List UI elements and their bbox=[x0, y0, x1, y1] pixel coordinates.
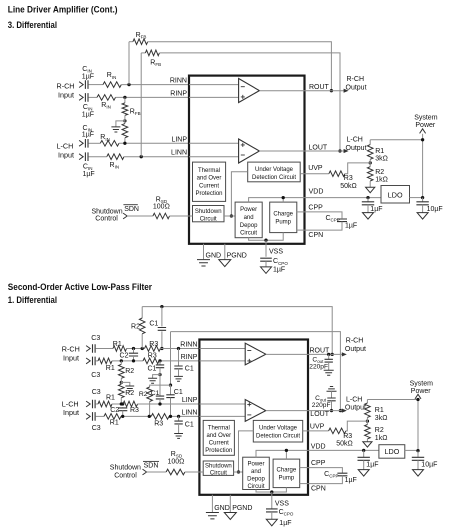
resistor RSD 100 (top) bbox=[153, 213, 170, 219]
pin label PGND (bottom) bbox=[232, 505, 252, 512]
svg-text:Output: Output bbox=[345, 346, 366, 353]
wire LOUT output (bottom) bbox=[308, 410, 345, 412]
pin label CPN (top) bbox=[308, 232, 323, 239]
capacitor C3 3 (bottom) bbox=[93, 400, 96, 409]
wire R2 jog (bottom) bbox=[150, 385, 171, 387]
wire rinp to IC (bottom) bbox=[159, 360, 199, 362]
wire LDO to system power (bottom) bbox=[405, 449, 418, 451]
node R1/R2/R3 junction (top) bbox=[369, 159, 372, 166]
wire RINP inside (bottom) bbox=[199, 360, 245, 362]
wire rail2 to LOUT (top) bbox=[159, 53, 340, 151]
svg-text:VDD: VDD bbox=[311, 444, 326, 451]
wire 10uF to gnd (top) bbox=[422, 205, 424, 213]
ground VDD cap (bottom, arrow) bbox=[358, 470, 369, 477]
label R1 (bottom LINN) bbox=[110, 419, 119, 426]
wire CCPP to CPN (top) bbox=[305, 222, 343, 231]
op-amp U2A (bottom R-CH) bbox=[245, 343, 266, 365]
node RINP/C1 junction (bottom) bbox=[158, 359, 161, 362]
node ROUT/Cout junction (bottom) bbox=[327, 353, 330, 356]
label R2 lower (bottom) bbox=[125, 390, 134, 397]
label Shutdown Control (top) bbox=[92, 208, 123, 222]
wire C1 gnd drop LINN (bottom) bbox=[178, 416, 180, 421]
wire VDD internal (bottom) bbox=[256, 449, 308, 459]
svg-text:3kΩ: 3kΩ bbox=[375, 415, 388, 422]
label R2 upper (bottom) bbox=[125, 368, 134, 375]
node system power/rail junction (bottom) bbox=[416, 398, 419, 401]
capacitor C1 (LINN to rail2) bbox=[166, 395, 174, 398]
svg-text:Power: Power bbox=[240, 207, 257, 213]
svg-text:1kΩ: 1kΩ bbox=[375, 435, 388, 442]
svg-text:RINN: RINN bbox=[180, 342, 197, 349]
wire linn node segment (bottom) bbox=[121, 415, 151, 417]
node LINN/C2 junction (bottom) bbox=[121, 415, 124, 418]
svg-text:Current: Current bbox=[199, 183, 219, 189]
wire LINP inside (top) bbox=[189, 142, 239, 144]
svg-text:R1: R1 bbox=[106, 395, 115, 402]
svg-text:LOUT: LOUT bbox=[310, 411, 329, 418]
wire R2 chain upper lead (bottom) bbox=[120, 361, 122, 364]
block Power and Depop Circuit (top) bbox=[235, 202, 262, 238]
label R2 rail2 (bottom) bbox=[139, 391, 148, 398]
wire linp input (bottom) bbox=[95, 403, 98, 405]
label System Power (top) bbox=[414, 114, 438, 128]
svg-text:L-CH: L-CH bbox=[346, 397, 362, 404]
node RINP/RFB junction (top) bbox=[123, 96, 126, 99]
resistor R1 (bottom RINP) bbox=[98, 358, 112, 364]
capacitor C3 1 (bottom) bbox=[93, 344, 96, 353]
label RFB upper bbox=[130, 108, 141, 116]
resistor RFB (RINP to gnd) bbox=[122, 103, 128, 116]
label L-CH Output (bottom) bbox=[345, 397, 366, 412]
wire LOUT inside (bottom) bbox=[266, 410, 308, 412]
label RIN (top RINP) bbox=[101, 102, 111, 110]
wire rinn to IC (bottom) bbox=[160, 348, 199, 350]
resistor RIN (top RINP) bbox=[97, 95, 116, 101]
svg-text:LINP: LINP bbox=[182, 397, 198, 404]
node RINN/rail1 junction (top) bbox=[127, 83, 130, 86]
node RINN/R2 junction (bottom) bbox=[141, 347, 144, 350]
wire VSS stem (top) bbox=[265, 240, 267, 257]
node LOUT/Cout junction (bottom) bbox=[330, 409, 333, 412]
wire SDN to RSD (bottom) bbox=[147, 471, 167, 473]
svg-text:ROUT: ROUT bbox=[310, 347, 331, 354]
label C1 LINN gnd (bottom) bbox=[185, 421, 194, 428]
terminal System Power arrow (top) bbox=[420, 129, 426, 134]
capacitor CCPO (bottom) bbox=[266, 509, 278, 512]
ground R2 midpoint (bottom) bbox=[125, 386, 134, 391]
input terminal L-CH - (bottom) bbox=[86, 414, 90, 420]
node RINN/C1gnd junction (bottom) bbox=[177, 347, 180, 350]
capacitor C1 (LINN to gnd) bbox=[174, 421, 182, 424]
block Shutdown Circuit (top) bbox=[193, 206, 225, 223]
capacitor C3 2 (bottom) bbox=[93, 357, 96, 366]
ground C1 midpoint (bottom) bbox=[148, 378, 157, 383]
svg-text:R3: R3 bbox=[154, 420, 163, 427]
pin label LOUT (bottom) bbox=[310, 411, 329, 418]
pin label LINN (top) bbox=[171, 150, 187, 157]
svg-text:ROUT: ROUT bbox=[309, 84, 330, 91]
wire R3 to junction (top) bbox=[345, 163, 370, 174]
pin PGND (top) bbox=[224, 244, 226, 260]
op-amp U1A (top R-CH) bbox=[239, 79, 260, 103]
resistor RFB (gnd to LINP) bbox=[122, 124, 128, 138]
pin label LINP (top) bbox=[171, 136, 187, 143]
label CIN 1uF (top 2) bbox=[82, 104, 94, 119]
wire VSS bracket (top) bbox=[249, 233, 284, 242]
node RINN/C1 junction (bottom) bbox=[160, 347, 163, 350]
label RIN (top LINP) bbox=[100, 134, 110, 142]
svg-text:Control: Control bbox=[114, 472, 137, 479]
svg-text:C3: C3 bbox=[91, 335, 100, 342]
svg-text:R-CH: R-CH bbox=[346, 338, 364, 345]
svg-text:and Over: and Over bbox=[206, 433, 231, 439]
node LINN/C1 junction (bottom) bbox=[169, 415, 172, 418]
wire RINN inside (top) bbox=[189, 84, 239, 86]
ground GND (top) bbox=[197, 260, 210, 266]
svg-text:C3: C3 bbox=[92, 389, 101, 396]
svg-text:1µF: 1µF bbox=[345, 477, 357, 484]
svg-text:Charge: Charge bbox=[273, 212, 293, 218]
ground VSS (top, arrow) bbox=[261, 267, 272, 274]
label R3 (bottom LINP) bbox=[130, 407, 139, 414]
wire R-CH inp input (top) bbox=[88, 96, 97, 98]
svg-text:R-CH: R-CH bbox=[347, 76, 365, 83]
svg-text:LINN: LINN bbox=[181, 409, 197, 416]
svg-text:Power: Power bbox=[415, 122, 436, 129]
node RINP/R2 junction (bottom) bbox=[120, 359, 123, 362]
wire RSD to IC (top) bbox=[170, 215, 193, 217]
svg-text:Input: Input bbox=[63, 408, 79, 417]
svg-text:and: and bbox=[244, 215, 254, 221]
svg-text:and Over: and Over bbox=[197, 176, 222, 182]
label CCPP 1uF (bottom) bbox=[345, 477, 357, 484]
svg-text:System: System bbox=[410, 380, 434, 387]
label CIN 1uF (top 4) bbox=[83, 164, 95, 178]
node R-CH Input label (bottom) bbox=[62, 344, 80, 362]
label CCPP (bottom) bbox=[324, 471, 338, 479]
label C2 (L-CH, bottom) bbox=[110, 407, 119, 414]
pin label VDD (bottom) bbox=[311, 444, 326, 451]
ground GND (bottom) bbox=[206, 513, 219, 519]
wire C1 gnd stem LINN (bottom) bbox=[178, 424, 180, 434]
label C1 rail1 (bottom) bbox=[149, 320, 158, 327]
pin label LOUT (top) bbox=[309, 144, 328, 151]
svg-text:100Ω: 100Ω bbox=[168, 459, 185, 466]
svg-text:R2: R2 bbox=[125, 368, 134, 375]
svg-text:1µF: 1µF bbox=[370, 206, 382, 213]
svg-text:1µF: 1µF bbox=[83, 171, 95, 178]
node system power/rail junction (top) bbox=[421, 138, 424, 141]
wire R2 to vss arrow (bottom) bbox=[366, 439, 368, 442]
wire rail1 left drop (top) bbox=[128, 42, 130, 85]
wire CPP to CCPP (bottom) bbox=[308, 468, 342, 474]
wire C1 rail drop (bottom) bbox=[161, 307, 163, 349]
IC body (bottom MAX9722) bbox=[199, 340, 308, 495]
block Thermal and Over Current Protection (bottom) bbox=[203, 420, 234, 455]
input terminal shutdown (bottom) bbox=[143, 469, 147, 475]
wire C1 chain upper lead (bottom) bbox=[159, 361, 161, 365]
IC body (top MAX9722) bbox=[189, 76, 305, 244]
svg-text:Pump: Pump bbox=[279, 475, 295, 481]
wire VDD cap to gnd (bottom) bbox=[363, 460, 365, 469]
label C3 (bottom 4) bbox=[92, 425, 101, 432]
resistor R1 3k (top) bbox=[367, 145, 373, 160]
resistor R3 (bottom LINP) bbox=[123, 401, 138, 407]
label SDN with overline (top) bbox=[123, 205, 139, 213]
resistor R2 (rail1, bottom) bbox=[139, 318, 145, 334]
label C2 (R-CH, bottom) bbox=[120, 352, 129, 359]
svg-text:Second-Order Active Low-Pass F: Second-Order Active Low-Pass Filter bbox=[8, 281, 152, 292]
label C1 RINN gnd (bottom) bbox=[185, 365, 194, 372]
svg-text:R3: R3 bbox=[148, 353, 157, 360]
label Cout (bottom R) bbox=[312, 356, 324, 364]
svg-text:1µF: 1µF bbox=[279, 520, 291, 527]
svg-text:CPP: CPP bbox=[308, 204, 323, 211]
node R-CH Input label (top) bbox=[57, 81, 75, 99]
svg-text:1µF: 1µF bbox=[82, 111, 94, 118]
svg-text:Under Voltage: Under Voltage bbox=[259, 426, 298, 432]
wire rail2 left segment (top) bbox=[141, 52, 145, 54]
wire Cout lead (bottom R) bbox=[328, 354, 330, 359]
node rail2/LOUT junction (top) bbox=[338, 149, 341, 152]
node VDD/C junction (top) bbox=[366, 196, 369, 199]
label CCPP 1uF (top) bbox=[345, 222, 357, 229]
label R2 rail1 (bottom) bbox=[131, 324, 140, 331]
svg-text:R3: R3 bbox=[149, 341, 158, 348]
block Charge Pump (top) bbox=[270, 202, 297, 233]
node LINP/RFB junction (top) bbox=[123, 142, 126, 145]
block Power and Depop Circuit (bottom) bbox=[243, 457, 270, 490]
input terminal R-CH + (top) bbox=[79, 82, 83, 88]
pin PGND (bottom) bbox=[229, 495, 231, 513]
wire 10uF lead (top) bbox=[422, 198, 424, 203]
label C1 rail2 (bottom) bbox=[174, 389, 183, 396]
svg-text:L-CH: L-CH bbox=[57, 142, 74, 151]
wire VDD cap to gnd (top) bbox=[367, 205, 369, 213]
svg-text:R1: R1 bbox=[375, 148, 384, 155]
wire UVD to shutdown net (top) bbox=[230, 172, 248, 218]
svg-text:Power: Power bbox=[411, 388, 432, 395]
input terminal R-CH + (bottom) bbox=[86, 346, 90, 352]
wire C1 ground stub (bottom) bbox=[153, 375, 160, 379]
svg-text:Output: Output bbox=[346, 85, 367, 92]
svg-text:RINN: RINN bbox=[170, 78, 187, 85]
ground C1 LINN (bottom) bbox=[174, 434, 183, 439]
wire VDD to LDO (top) bbox=[305, 197, 382, 199]
resistor R2 (gnd to LINP, bottom) bbox=[119, 384, 125, 398]
capacitor C1 (RINN to gnd) bbox=[174, 366, 182, 369]
svg-text:Detection Circuit: Detection Circuit bbox=[252, 175, 296, 181]
capacitor 10uF (top) bbox=[416, 202, 428, 205]
wire shutdown to power block (bottom) bbox=[234, 471, 243, 473]
wire 10uF to gnd (bottom) bbox=[417, 460, 419, 469]
wire linp node segment (bottom) bbox=[112, 403, 123, 405]
svg-text:C1: C1 bbox=[174, 389, 183, 396]
label R2 1k (top) bbox=[375, 169, 388, 184]
svg-text:Input: Input bbox=[58, 90, 74, 99]
label CIN 1uF (top 3) bbox=[82, 125, 94, 139]
label R-CH Output (bottom) bbox=[345, 338, 366, 353]
svg-text:Output: Output bbox=[345, 405, 366, 412]
wire divider rail (top) bbox=[370, 139, 422, 141]
wire R2 ground stub (bottom) bbox=[121, 382, 130, 386]
resistor RIN (top RINN) bbox=[103, 82, 121, 88]
svg-text:1µF: 1µF bbox=[82, 132, 94, 139]
svg-text:SDN: SDN bbox=[144, 463, 159, 470]
svg-text:1µF: 1µF bbox=[273, 267, 285, 274]
svg-text:1µF: 1µF bbox=[345, 222, 357, 229]
wire L-CH inn input (top) bbox=[88, 156, 106, 158]
pin label CPP (top) bbox=[308, 204, 323, 211]
pin label CPP (bottom) bbox=[311, 460, 326, 467]
svg-text:R1: R1 bbox=[106, 365, 115, 372]
ground VDD cap (top, arrow) bbox=[363, 213, 374, 220]
voltage regulator LDO (bottom) bbox=[379, 445, 405, 459]
svg-text:LINP: LINP bbox=[171, 136, 187, 143]
svg-text:UVP: UVP bbox=[308, 165, 323, 172]
wire R2 rail lead (bottom) bbox=[141, 307, 143, 349]
node LINN/C1gnd junction (bottom) bbox=[177, 415, 180, 418]
node rail2/R2 junction (bottom) bbox=[169, 383, 172, 386]
label R3 50k (bottom) bbox=[336, 433, 353, 448]
svg-text:CPN: CPN bbox=[311, 486, 326, 493]
power ground PGND symbol (top) bbox=[219, 260, 231, 267]
svg-text:R1: R1 bbox=[375, 407, 384, 414]
svg-text:Circuit: Circuit bbox=[240, 231, 257, 237]
label C3 (bottom 2) bbox=[91, 372, 100, 379]
wire rail2 (bottom) bbox=[171, 332, 341, 411]
label R3 (bottom LINN) bbox=[154, 420, 163, 427]
node RINN/C2 junction (bottom) bbox=[132, 347, 135, 350]
resistor R3 (bottom LINN) bbox=[151, 414, 169, 420]
svg-text:R3: R3 bbox=[344, 175, 353, 182]
ground C1 RINN (bottom) bbox=[174, 376, 183, 381]
label RFB rail2 bbox=[150, 59, 161, 67]
wire CCPP to CPN (bottom) bbox=[308, 476, 342, 484]
wire LINP inside (bottom) bbox=[199, 403, 245, 405]
capacitor CCPP (bottom) bbox=[337, 473, 347, 476]
svg-text:R1: R1 bbox=[113, 341, 122, 348]
output arrow L-CH (top) bbox=[344, 149, 349, 153]
label R1 (bottom RINN) bbox=[113, 341, 122, 348]
label 10uF (bottom) bbox=[421, 462, 437, 469]
svg-text:Power: Power bbox=[247, 462, 264, 468]
svg-text:1µF: 1µF bbox=[366, 461, 378, 468]
svg-text:C1: C1 bbox=[185, 421, 194, 428]
wire UVD to shutdown net (bottom) bbox=[237, 431, 253, 474]
svg-text:Depop: Depop bbox=[240, 223, 258, 229]
wire rail1 to ROUT (top) bbox=[148, 42, 332, 91]
pin label RINN (top) bbox=[170, 78, 187, 85]
wire system power vertical (bottom) bbox=[417, 399, 419, 450]
capacitor C1 (gnd to LINP) bbox=[156, 396, 164, 399]
label C3 (bottom 3) bbox=[92, 389, 101, 396]
label RSD (bottom) bbox=[168, 451, 185, 466]
ground RFB midpoint (top) bbox=[111, 127, 120, 132]
svg-text:VDD: VDD bbox=[309, 189, 324, 196]
capacitor CCPP (top) bbox=[337, 219, 347, 222]
svg-text:Shutdown: Shutdown bbox=[205, 464, 232, 470]
svg-text:CPP: CPP bbox=[311, 460, 326, 467]
label R1 (bottom RINP) bbox=[106, 365, 115, 372]
node LINP/R2 junction (bottom) bbox=[120, 402, 123, 405]
wire R1 top lead (bottom) bbox=[366, 400, 368, 404]
wire CPN internal (bottom) bbox=[300, 483, 308, 485]
node rail1/C1 junction (bottom) bbox=[160, 305, 163, 308]
wire UVP to R3 (bottom) bbox=[308, 430, 329, 432]
capacitor C2 (R-CH, bottom) bbox=[129, 349, 138, 361]
label R1 (bottom LINP) bbox=[106, 395, 115, 402]
svg-text:R2: R2 bbox=[375, 427, 384, 434]
svg-text:R2: R2 bbox=[139, 391, 148, 398]
svg-text:C1: C1 bbox=[147, 365, 156, 372]
wire ROUT output (bottom) bbox=[308, 353, 345, 355]
voltage regulator LDO (top) bbox=[381, 186, 410, 204]
wire VDD cap lead (top) bbox=[367, 198, 369, 203]
label C1 RINP (bottom) bbox=[147, 365, 156, 372]
label RIN (top LINN) bbox=[110, 162, 120, 170]
pin label UVP (bottom) bbox=[310, 424, 325, 431]
svg-text:LINN: LINN bbox=[171, 150, 187, 157]
svg-text:R1: R1 bbox=[110, 419, 119, 426]
resistor RFB (rail1) bbox=[133, 39, 148, 45]
wire ROUT inside (top) bbox=[259, 90, 304, 92]
label R-CH Output (top) bbox=[346, 76, 367, 92]
capacitor C3 4 (bottom) bbox=[93, 412, 96, 421]
pin label ROUT (bottom) bbox=[310, 347, 331, 354]
vss arrow below R2 (top) bbox=[366, 187, 375, 192]
label CCPO value 1uF (top) bbox=[273, 267, 285, 274]
pin label RINP (bottom) bbox=[181, 354, 198, 361]
label CCPP (top) bbox=[325, 215, 339, 223]
svg-text:VSS: VSS bbox=[275, 501, 289, 508]
wire SDN to RSD (top) bbox=[127, 215, 153, 217]
svg-text:Circuit: Circuit bbox=[247, 484, 264, 490]
resistor R2 1k (top) bbox=[367, 167, 373, 181]
wire shutdown to power block (top) bbox=[224, 215, 235, 217]
wire LOUT inside (top) bbox=[259, 150, 304, 152]
wire UVP to R3 (top) bbox=[305, 173, 329, 175]
wire VSS stem (bottom) bbox=[271, 492, 273, 509]
node LDO/system power junction (top) bbox=[421, 196, 424, 199]
wire LINN to IC (top) bbox=[124, 156, 189, 158]
wire RINP to IC (top) bbox=[116, 96, 190, 98]
ground VSS (bottom, arrow) bbox=[266, 519, 277, 526]
wire CPP internal (top) bbox=[297, 211, 305, 213]
svg-text:1. Differential: 1. Differential bbox=[8, 295, 57, 305]
svg-text:Current: Current bbox=[209, 440, 229, 446]
block Charge Pump (bottom) bbox=[273, 459, 300, 488]
ground Cout (bottom R) bbox=[324, 370, 334, 375]
capacitor 1uF VDD (bottom) bbox=[358, 457, 370, 460]
wire CPP to CCPP (top) bbox=[305, 212, 343, 218]
node VDD/C junction (bottom) bbox=[362, 449, 365, 452]
input terminal R-CH - (bottom) bbox=[86, 358, 90, 364]
label CCPO value 1uF (bottom) bbox=[279, 520, 291, 527]
subtitle: 3. Differential bbox=[8, 20, 57, 30]
wire RINP inside (top) bbox=[189, 96, 239, 98]
svg-text:L-CH: L-CH bbox=[347, 136, 363, 143]
pin label RINP (top) bbox=[170, 90, 187, 97]
resistor R1 3k (bottom) bbox=[365, 403, 371, 417]
svg-text:R2: R2 bbox=[125, 390, 134, 397]
wire VDD internal (top) bbox=[249, 196, 305, 202]
label Shutdown Control (bottom) bbox=[110, 465, 141, 480]
op-amp U1B (top L-CH) bbox=[239, 139, 260, 163]
capacitor CIN 1 (top R-CH +) bbox=[85, 80, 88, 89]
node C1 midpoint (bottom) bbox=[158, 368, 161, 396]
wire R2 rail2 lower lead (bottom) bbox=[149, 402, 151, 417]
